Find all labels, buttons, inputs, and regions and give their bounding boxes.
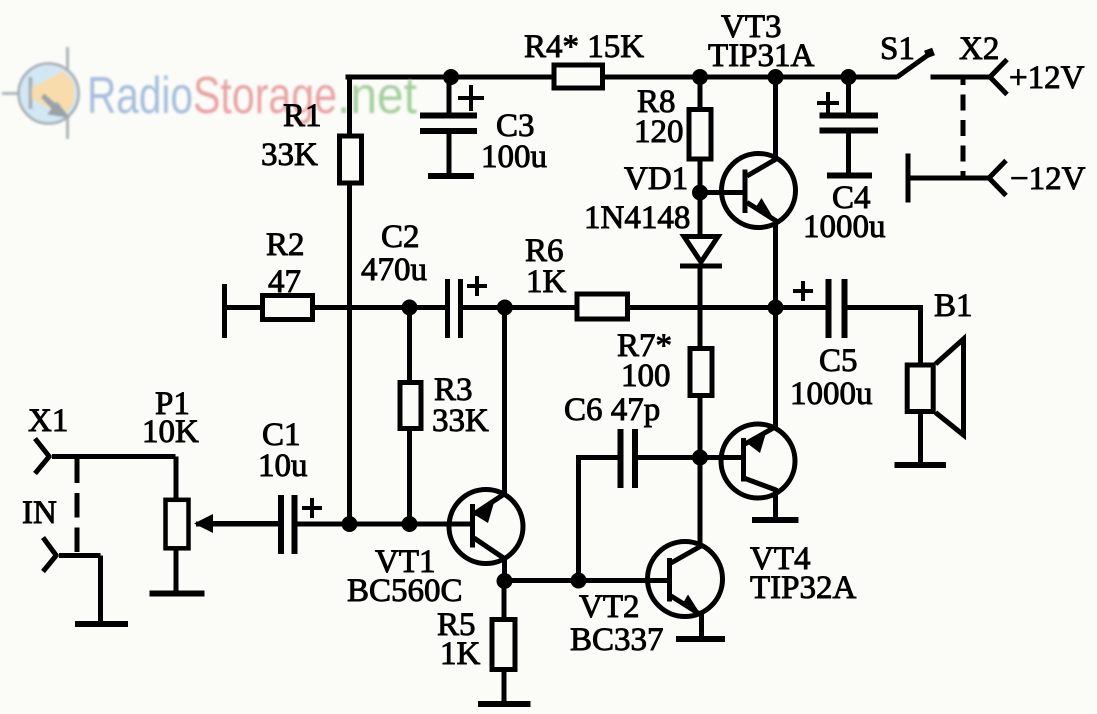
capacitor C6 left column bbox=[576, 455, 581, 581]
speaker B1 horn bbox=[936, 339, 964, 435]
svg-text:VD1: VD1 bbox=[624, 161, 688, 197]
wire R6 to C5 bbox=[629, 305, 826, 310]
transistor VT2 emitter arrow bbox=[683, 595, 701, 614]
connector X2 +12V lead bbox=[931, 75, 992, 80]
switch S1 lever bbox=[897, 54, 931, 78]
resistor R6 bbox=[577, 294, 628, 319]
logo gray arrow bbox=[41, 94, 70, 119]
diode VD1 bbox=[680, 237, 722, 267]
connector X2 -12V arrow bbox=[988, 161, 1006, 180]
transistor VT4 bbox=[721, 424, 795, 498]
capacitor C5 plus sign bbox=[793, 281, 813, 301]
potentiometer P1 body bbox=[166, 500, 189, 549]
potentiometer P1 column bbox=[174, 457, 179, 499]
svg-text:BC560C: BC560C bbox=[347, 573, 463, 609]
node VT1 collector bbox=[497, 573, 513, 589]
ground speaker bbox=[895, 462, 947, 468]
transistor VT4 emitter arrow (PNP inward) bbox=[748, 435, 766, 454]
resistor R5 bbox=[492, 620, 515, 670]
connector X1 top lead bbox=[52, 454, 176, 459]
logo orange wedge bbox=[32, 71, 75, 116]
wire R7 bottom to VT2 collector bbox=[698, 397, 703, 548]
wire R2 to C2 bbox=[314, 305, 445, 310]
ground C4 bbox=[827, 173, 872, 179]
logo text RadioStorage.net bbox=[87, 67, 418, 125]
svg-text:VT2: VT2 bbox=[579, 589, 640, 625]
svg-text:B1: B1 bbox=[934, 288, 973, 324]
svg-text:1K: 1K bbox=[440, 636, 481, 672]
capacitor C4 plus sign bbox=[817, 92, 839, 114]
node VD1/VT3 base bbox=[692, 185, 708, 201]
wire C5 to speaker bbox=[847, 305, 921, 310]
resistor R1 bbox=[340, 136, 362, 183]
node C3/rail bbox=[443, 69, 459, 85]
svg-text:1000u: 1000u bbox=[790, 376, 873, 412]
resistor R4 bbox=[554, 65, 603, 88]
speaker B1 box bbox=[907, 365, 933, 412]
connector X2 -12V lead bbox=[906, 176, 990, 181]
resistor R8 bbox=[689, 110, 711, 160]
node R8/rail bbox=[692, 69, 708, 85]
connector X2 ground bar bbox=[906, 154, 911, 203]
node R3/base line bbox=[402, 516, 418, 532]
svg-text:100: 100 bbox=[621, 358, 671, 394]
transistor VT1 bbox=[449, 490, 523, 564]
node C4/rail bbox=[841, 69, 857, 85]
wire VT3 base bbox=[700, 190, 743, 195]
svg-text:33K: 33K bbox=[261, 137, 318, 173]
capacitor C6 plates bbox=[621, 429, 636, 488]
svg-text:IN: IN bbox=[22, 495, 57, 531]
transistor VT3 bbox=[722, 154, 796, 228]
wire VD1 to mid bbox=[698, 266, 703, 347]
svg-text:10K: 10K bbox=[142, 414, 199, 450]
node C6/VT2 base line bbox=[571, 573, 587, 589]
svg-text:1000u: 1000u bbox=[803, 209, 886, 245]
capacitor C2 plus sign bbox=[467, 276, 487, 296]
wire VT1 base line bbox=[196, 522, 279, 527]
resistor R5 wires bbox=[502, 581, 507, 618]
capacitor C5 plates bbox=[829, 279, 845, 338]
svg-text:100u: 100u bbox=[481, 139, 547, 175]
svg-text:BC337: BC337 bbox=[570, 622, 664, 658]
svg-text:X2: X2 bbox=[959, 31, 999, 67]
svg-text:R1: R1 bbox=[283, 98, 322, 134]
ground P1 bbox=[150, 591, 205, 597]
wire mid line left: terminal to R2 bbox=[224, 305, 261, 310]
wire speaker bottom bbox=[918, 413, 923, 463]
node VT3 collector/rail bbox=[768, 69, 784, 85]
wire C6 right to node bbox=[638, 455, 700, 460]
svg-text:TIP32A: TIP32A bbox=[750, 570, 857, 606]
resistor R3 bbox=[400, 383, 421, 429]
wire C2 to R6 bbox=[463, 305, 577, 310]
capacitor C4 plates bbox=[820, 116, 879, 131]
svg-text:S1: S1 bbox=[880, 31, 915, 67]
ground C3 bbox=[428, 173, 474, 179]
terminal bar left of R2 bbox=[222, 284, 227, 338]
svg-text:C2: C2 bbox=[381, 219, 420, 255]
ground VT2 bbox=[676, 636, 725, 642]
svg-text:10u: 10u bbox=[258, 448, 308, 484]
connector X2 +12V arrow bbox=[989, 60, 1007, 79]
wire VT4 collector to ground bbox=[773, 488, 778, 520]
node output/mid bbox=[768, 300, 784, 316]
ground X1 bbox=[75, 621, 128, 627]
node R1/base line bbox=[342, 516, 358, 532]
svg-text:+12V: +12V bbox=[1009, 60, 1085, 96]
svg-text:TIP31A: TIP31A bbox=[708, 38, 815, 74]
node R7/VT4 base bbox=[692, 450, 708, 466]
connector X2 dashed body line bbox=[961, 79, 966, 177]
ground R5 bbox=[478, 701, 531, 707]
wire VT1 collector to node bbox=[502, 558, 507, 582]
svg-text:47: 47 bbox=[268, 264, 301, 300]
wire VT2 emitter to ground bbox=[699, 614, 704, 639]
connector X1 bottom lead bbox=[59, 553, 101, 558]
wire VT1 emitter column bbox=[502, 308, 507, 496]
node R3/mid bbox=[402, 300, 418, 316]
capacitor C3 plates bbox=[420, 116, 477, 132]
svg-text:R2: R2 bbox=[266, 227, 305, 263]
logo transistor icon bbox=[2, 47, 79, 139]
svg-text:1K: 1K bbox=[526, 264, 567, 300]
connector X1 dashed body line bbox=[75, 459, 80, 553]
svg-text:C5: C5 bbox=[819, 343, 858, 379]
capacitor C3 wires bbox=[447, 77, 452, 114]
wire R8 column bbox=[698, 77, 703, 108]
svg-text:X1: X1 bbox=[28, 403, 68, 439]
connector X1 top arrow bbox=[35, 439, 50, 458]
potentiometer P1 wiper wire bbox=[199, 521, 279, 526]
node VT1 emitter/mid bbox=[497, 300, 513, 316]
capacitor C4 wires bbox=[846, 77, 851, 113]
svg-text:Radio: Radio bbox=[87, 67, 193, 125]
transistor VT1 emitter arrow (PNP inward) bbox=[475, 503, 494, 524]
svg-text:470u: 470u bbox=[361, 252, 427, 288]
svg-text:1N4148: 1N4148 bbox=[584, 200, 690, 236]
resistor R3 column wires bbox=[407, 308, 412, 382]
ground VT4 bbox=[752, 517, 799, 523]
wire VT4 base bbox=[700, 455, 742, 460]
node dots bbox=[342, 69, 857, 589]
svg-text:33K: 33K bbox=[432, 403, 489, 439]
wire VT3 emitter column bbox=[773, 219, 778, 308]
transistor VT2 bbox=[648, 542, 723, 617]
capacitor C2 plates bbox=[448, 279, 461, 338]
transistor VT3 emitter arrow bbox=[755, 198, 773, 217]
capacitor C1 plus sign bbox=[302, 498, 322, 518]
svg-text:−12V: −12V bbox=[1010, 161, 1086, 197]
resistor R2 bbox=[263, 296, 313, 320]
resistor R7 bbox=[690, 349, 712, 396]
capacitor C3 plus sign bbox=[458, 85, 484, 111]
svg-text:R4* 15K: R4* 15K bbox=[524, 29, 644, 65]
wire VT1 collector to VT2 base bbox=[505, 578, 668, 583]
wire top +rail bbox=[346, 75, 898, 80]
svg-text:120: 120 bbox=[634, 114, 684, 150]
connector X1 bottom arrow bbox=[43, 538, 57, 557]
svg-text:C6 47p: C6 47p bbox=[564, 392, 660, 428]
capacitor C1 plates bbox=[281, 495, 295, 554]
resistor R1 column wires bbox=[347, 75, 352, 135]
wire VT3 collector column bbox=[773, 77, 778, 161]
wire VT4 emitter column bbox=[773, 308, 778, 429]
potentiometer P1 wiper arrowhead bbox=[194, 514, 213, 533]
